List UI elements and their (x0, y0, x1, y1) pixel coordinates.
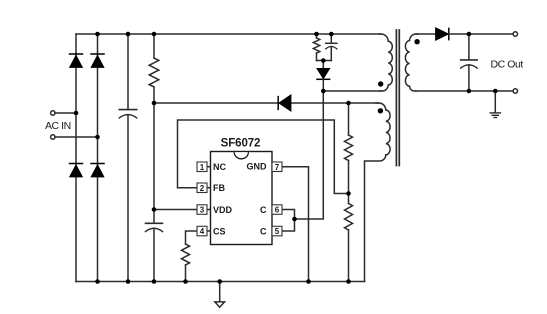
node bottom rail / GND wire (306, 279, 311, 284)
svg-text:SF6072: SF6072 (221, 137, 261, 149)
transformer T1 secondary winding (405, 34, 418, 91)
diode D4 bridge lower-right (91, 164, 104, 177)
svg-text:2: 2 (200, 184, 205, 193)
node bottom rail / bulk cap (126, 279, 131, 284)
svg-text:AC IN: AC IN (45, 120, 71, 132)
svg-text:1: 1 (200, 163, 205, 172)
capacitor C3 snubber (326, 34, 337, 61)
svg-text:C: C (260, 226, 267, 236)
ground triangle primary (215, 282, 225, 308)
resistor R1 startup (149, 34, 159, 223)
wire primary bottom (323, 90, 381, 92)
pin 1 (197, 162, 211, 172)
wire left bridge column (75, 34, 77, 282)
wire secondary top (416, 33, 436, 35)
wire right bridge column (97, 34, 99, 282)
node VDD pin junction (152, 207, 157, 212)
svg-text:6: 6 (275, 206, 280, 215)
node top rail / bridge right (95, 32, 100, 37)
ground earth symbol output (490, 91, 500, 118)
node clamp / primary bottom (321, 89, 326, 94)
resistor R4 divider upper (345, 103, 353, 194)
terminal DC out + (513, 32, 517, 36)
wire pin5 C (282, 219, 295, 231)
wire pin3 VDD to IC (154, 209, 197, 211)
wire FB loop (178, 120, 349, 194)
capacitor C1 bulk electrolytic (119, 34, 136, 282)
pin 4 (197, 226, 211, 236)
svg-text:GND: GND (247, 161, 268, 171)
node top rail / startup R (152, 32, 157, 37)
diode D7 output rectifier (436, 28, 449, 40)
node top rail / snubber C (329, 32, 334, 37)
svg-text:FB: FB (213, 183, 225, 193)
node bottom rail / ground (217, 279, 222, 284)
svg-text:7: 7 (275, 163, 280, 172)
node bottom rail / VDD cap (152, 279, 157, 284)
wire AC line 1 (55, 112, 76, 114)
wire bottom rail (76, 281, 365, 283)
capacitor C4 output electrolytic (461, 34, 477, 91)
pin 6 (272, 205, 282, 215)
pin 3 (197, 205, 211, 215)
svg-text:VDD: VDD (213, 205, 233, 215)
transformer T1 primary winding (379, 34, 392, 91)
node startup R / aux line (152, 101, 157, 106)
transformer T1 core (396, 30, 399, 166)
svg-text:DC Out: DC Out (491, 58, 524, 70)
svg-text:C: C (260, 205, 267, 215)
polarity dot primary (378, 81, 383, 86)
diode D1 bridge upper-left (70, 54, 83, 67)
resistor R2 current sense (182, 244, 190, 265)
wire top rail (76, 33, 381, 35)
node top rail / bulk cap (126, 32, 131, 37)
node bottom rail / bridge right (95, 279, 100, 284)
capacitor C2 VDD electrolytic (146, 223, 163, 281)
op-amp U1 SF6072 body (211, 152, 273, 245)
pin 2 (197, 183, 211, 193)
wire VDD aux line (154, 102, 278, 104)
diode D5 aux rectifier (278, 95, 291, 111)
node bottom rail / divider (346, 279, 351, 284)
wire secondary bottom (416, 90, 513, 92)
diode D6 clamp (317, 61, 330, 92)
wire AC line 2 (55, 136, 98, 138)
pin 5 (272, 226, 282, 236)
svg-text:4: 4 (200, 227, 205, 236)
node AC2 junction (95, 135, 100, 140)
pin 7 (272, 162, 282, 172)
terminal AC line 1 (51, 111, 55, 115)
svg-text:5: 5 (275, 227, 280, 236)
terminal AC line 2 (51, 135, 55, 139)
node divider mid FB (346, 191, 351, 196)
diode D3 bridge lower-left (70, 164, 83, 177)
resistor R3 snubber (313, 34, 319, 61)
node output diode / cap (467, 32, 472, 37)
wire pin4 CS (186, 231, 198, 244)
node divider top (346, 101, 351, 106)
wire pin7 GND (282, 167, 309, 282)
node pins 5-6 join (292, 217, 297, 222)
wire collector to primary (295, 91, 324, 219)
svg-text:3: 3 (200, 206, 205, 215)
node top rail / snubber R (314, 32, 319, 37)
node output cap bottom (467, 89, 472, 94)
node bottom rail / CS R (183, 279, 188, 284)
svg-text:NC: NC (213, 162, 226, 172)
node snubber join (321, 58, 326, 63)
svg-text:CS: CS (213, 226, 226, 236)
resistor R5 divider lower (345, 194, 353, 282)
transformer T1 aux winding (365, 103, 391, 282)
wire diode to +out (449, 33, 513, 35)
wire pin6 C (282, 210, 295, 220)
polarity dot secondary (414, 39, 419, 44)
polarity dot aux (378, 108, 383, 113)
terminal DC out - (513, 89, 517, 93)
diode D2 bridge upper-right (91, 54, 104, 67)
node AC1 junction (74, 111, 79, 116)
node output ground (493, 89, 498, 94)
wire snubber join (317, 60, 332, 62)
